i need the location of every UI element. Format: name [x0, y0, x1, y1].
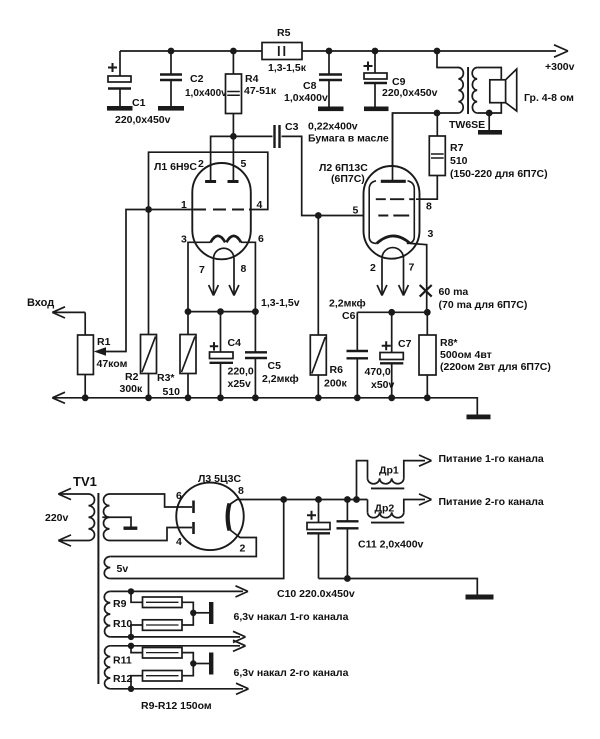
- capacitor C1: [108, 51, 131, 106]
- svg-text:Гр. 4-8 ом: Гр. 4-8 ом: [524, 92, 574, 104]
- node grid node Л1: [145, 206, 152, 213]
- wire heater 2 bottom lead arrow: [110, 683, 248, 694]
- svg-text:47-51к: 47-51к: [244, 85, 277, 97]
- wire B+ top rail: [120, 50, 556, 52]
- svg-text:8: 8: [426, 201, 432, 213]
- wire Л1 cathodes to node: [188, 242, 255, 311]
- tube Л1 heater filament: [213, 248, 234, 258]
- transformer TV1 5v winding: [104, 557, 110, 579]
- tube Л3 anode pin 6: [192, 501, 195, 514]
- capacitor C7: [380, 312, 403, 398]
- wire Л2 cathode to node: [410, 243, 427, 312]
- resistor R10: [131, 613, 193, 637]
- svg-text:(70 ma для 6П7С): (70 ma для 6П7С): [439, 299, 528, 311]
- svg-text:R7: R7: [450, 142, 464, 154]
- wire Л2 cathode node: [357, 311, 427, 313]
- svg-text:R2: R2: [125, 371, 139, 383]
- transformer TV1 heater winding 2: [105, 646, 111, 689]
- svg-text:Бумага в масле: Бумага в масле: [308, 133, 389, 145]
- transformer TV1 primary 220v: [58, 488, 94, 546]
- svg-text:C1: C1: [132, 97, 146, 109]
- wire filter ground rail: [319, 579, 478, 595]
- tube Л2 cathode pin 3: [377, 236, 410, 243]
- wire Л3 pin 2 lead: [110, 530, 256, 557]
- svg-text:C11 2,0x400v: C11 2,0x400v: [358, 539, 424, 551]
- capacitor C8: [319, 51, 342, 107]
- svg-text:220v: 220v: [45, 512, 69, 524]
- svg-text:(6П7С): (6П7С): [331, 173, 365, 185]
- svg-text:500ом 4вт: 500ом 4вт: [440, 349, 492, 361]
- speaker Гр. 4-8 ом: [490, 69, 517, 111]
- svg-text:R3*: R3*: [157, 372, 175, 384]
- svg-text:220,0: 220,0: [228, 366, 254, 378]
- node Вход input arrow: [52, 307, 85, 318]
- transformer TW6SE core: [467, 67, 469, 114]
- inductor choke Др1: [357, 455, 432, 500]
- tube Л1 anode pin 2: [205, 136, 233, 181]
- svg-text:1,3-1,5к: 1,3-1,5к: [268, 62, 307, 74]
- tube Л1 anode pin 5: [228, 136, 239, 181]
- tube Л1 cathode pin 6: [226, 236, 241, 242]
- svg-text:6: 6: [258, 233, 264, 245]
- svg-text:Питание 1-го канала: Питание 1-го канала: [439, 453, 544, 465]
- wire heater 1 top lead arrow: [110, 586, 248, 597]
- svg-text:1,3-1,5v: 1,3-1,5v: [261, 297, 300, 309]
- ground C1 bar: [107, 106, 133, 111]
- tube Л3 anode pin 4: [192, 522, 195, 534]
- svg-text:2,2мкф: 2,2мкф: [329, 298, 366, 310]
- svg-text:R6: R6: [330, 364, 344, 376]
- ground C8 bar: [318, 107, 344, 112]
- svg-text:C4: C4: [228, 337, 242, 349]
- svg-text:6: 6: [176, 490, 182, 502]
- capacitor C4: [210, 312, 234, 398]
- svg-text:3: 3: [181, 234, 187, 246]
- svg-text:7: 7: [199, 264, 205, 276]
- tube Л2 beam plates inner outline: [369, 181, 414, 244]
- svg-text:2: 2: [370, 262, 376, 274]
- node ground rail dots: [82, 394, 431, 401]
- node Л1 cathode dots: [185, 308, 259, 315]
- ground main bar: [467, 415, 491, 420]
- resistor R8: [419, 312, 436, 398]
- svg-text:+300v: +300v: [545, 61, 575, 73]
- svg-text:R11: R11: [113, 655, 132, 667]
- svg-text:5v: 5v: [117, 563, 129, 575]
- svg-text:C8: C8: [303, 80, 317, 92]
- node +300v arrow: [554, 45, 568, 57]
- svg-text:x25v: x25v: [228, 378, 252, 390]
- capacitor C11: [337, 500, 359, 579]
- svg-text:2: 2: [198, 158, 204, 170]
- tube Л2 heater pin 2 arrow: [377, 258, 387, 295]
- tube Л2 screen grid pin 8 dashed: [376, 198, 415, 200]
- svg-text:R1: R1: [97, 336, 111, 348]
- inductor choke Др2: [368, 494, 432, 523]
- svg-text:200к: 200к: [324, 378, 348, 390]
- resistor R5: [262, 43, 302, 60]
- resistor R3: [180, 312, 196, 398]
- svg-text:TW6SE: TW6SE: [449, 119, 485, 131]
- ground speaker bar: [478, 130, 502, 135]
- svg-text:60 ma: 60 ma: [439, 286, 469, 298]
- transformer TV1 heater winding 1: [104, 591, 110, 637]
- capacitor C2: [160, 51, 182, 106]
- resistor R7: [420, 113, 446, 199]
- svg-text:R5: R5: [277, 27, 291, 39]
- capacitor C3: [233, 125, 363, 216]
- capacitor C9: [364, 51, 388, 107]
- tube Л2 heater filament: [382, 248, 404, 259]
- svg-text:510: 510: [163, 386, 181, 398]
- node B+ filter dots: [280, 496, 360, 503]
- resistor R6: [310, 216, 326, 398]
- tube Л2 6П13С envelope: [364, 166, 420, 259]
- ground filter bar: [466, 595, 494, 600]
- potentiometer R1: [78, 210, 145, 398]
- svg-text:С6: С6: [342, 310, 356, 322]
- svg-text:2,2мкф: 2,2мкф: [262, 373, 299, 385]
- resistor R9: [131, 591, 193, 612]
- svg-text:Питание 2-го канала: Питание 2-го канала: [439, 496, 544, 508]
- tube Л1 heater pin 7 arrow: [209, 259, 219, 296]
- svg-text:TV1: TV1: [73, 474, 97, 489]
- svg-text:5: 5: [241, 158, 247, 170]
- tube Л1 grid pins 1 4 dashed: [194, 209, 251, 211]
- ground HV center tap: [102, 517, 131, 526]
- svg-text:R9-R12 150ом: R9-R12 150ом: [141, 700, 212, 712]
- svg-text:R12: R12: [113, 673, 132, 685]
- svg-text:Др1: Др1: [379, 465, 399, 477]
- tube Л1 6Н9С envelope: [192, 163, 251, 259]
- svg-text:3: 3: [428, 228, 434, 240]
- wire grid loop pins 1 4: [149, 152, 268, 209]
- tube Л3 filament cathode: [228, 504, 230, 531]
- svg-text:220,0x450v: 220,0x450v: [115, 114, 171, 126]
- transformer TW6SE secondary: [472, 68, 501, 114]
- svg-text:R4: R4: [245, 73, 259, 85]
- node X current marker 60 ma: [420, 285, 432, 297]
- svg-text:0,22x400v: 0,22x400v: [308, 121, 358, 133]
- capacitor C10: [307, 500, 330, 579]
- svg-text:C2: C2: [190, 73, 204, 85]
- node plate node dot: [434, 110, 441, 117]
- svg-text:300к: 300к: [120, 383, 144, 395]
- svg-text:1,0x400v: 1,0x400v: [284, 92, 328, 104]
- wire heater 1 bottom lead arrow: [110, 631, 245, 642]
- svg-text:Л1 6Н9С: Л1 6Н9С: [154, 161, 197, 173]
- tube Л2 control grid pin 5 dashed: [378, 215, 409, 217]
- svg-text:R10: R10: [113, 618, 132, 630]
- svg-text:47ком: 47ком: [97, 358, 128, 370]
- svg-text:6,3v накал 2-го канала: 6,3v накал 2-го канала: [234, 667, 349, 679]
- wire 5v to B+: [110, 500, 283, 579]
- svg-text:R9: R9: [113, 598, 127, 610]
- svg-text:(150-220 для 6П7С): (150-220 для 6П7С): [450, 168, 548, 180]
- svg-text:1,0x400v: 1,0x400v: [185, 88, 227, 99]
- node R1 wiper arrow: [94, 347, 106, 356]
- svg-text:6,3v накал 1-го канала: 6,3v накал 1-го канала: [234, 611, 349, 623]
- svg-text:8: 8: [238, 485, 244, 497]
- ground C2 bar: [158, 106, 184, 111]
- svg-text:(220ом 2вт для 6П7С): (220ом 2вт для 6П7С): [440, 361, 551, 373]
- tube Л1 cathode pin 3: [211, 236, 226, 242]
- svg-text:2: 2: [240, 543, 246, 555]
- svg-text:Л3 5Ц3С: Л3 5Ц3С: [198, 473, 241, 485]
- svg-text:470,0: 470,0: [365, 366, 391, 378]
- svg-text:5: 5: [353, 205, 359, 217]
- svg-text:Др2: Др2: [375, 503, 395, 515]
- transformer TV1 core: [97, 493, 99, 684]
- ground chassis bar 2: [193, 663, 209, 665]
- svg-text:4: 4: [176, 536, 182, 548]
- resistor R4: [226, 51, 242, 136]
- node junction dots top rail: [168, 48, 441, 55]
- resistor R2: [141, 210, 157, 398]
- ground C9 bar: [364, 107, 389, 112]
- capacitor C6: [347, 312, 369, 398]
- tube Л2 anode: [381, 113, 406, 181]
- tube Л1 heater pin 8 arrow: [229, 259, 239, 296]
- svg-text:C5: C5: [268, 360, 282, 372]
- tube Л2 heater pin 7 arrow: [399, 258, 409, 295]
- wire heater 2 top lead arrow: [110, 640, 245, 651]
- svg-text:510: 510: [450, 155, 468, 167]
- ground chassis bar 1: [193, 612, 209, 614]
- svg-text:R8*: R8*: [440, 337, 458, 349]
- svg-text:220,0x450v: 220,0x450v: [382, 87, 438, 99]
- transformer TW6SE primary: [393, 51, 464, 181]
- wire Л3 pin 8 lead: [230, 500, 368, 505]
- capacitor C5: [245, 312, 267, 398]
- resistor R11: [131, 646, 193, 664]
- svg-text:x50v: x50v: [371, 379, 395, 391]
- transformer TV1 HV secondary: [103, 494, 192, 541]
- svg-text:Вход: Вход: [27, 297, 54, 309]
- svg-text:C7: C7: [398, 338, 412, 350]
- svg-text:С10 220.0x450v: С10 220.0x450v: [277, 588, 355, 600]
- svg-text:C3: C3: [285, 121, 299, 133]
- resistor R12: [131, 664, 193, 689]
- svg-text:7: 7: [409, 262, 415, 274]
- wire ground rail: [52, 392, 477, 414]
- tube Л3 5Ц3С envelope: [176, 483, 244, 551]
- svg-text:8: 8: [241, 263, 247, 275]
